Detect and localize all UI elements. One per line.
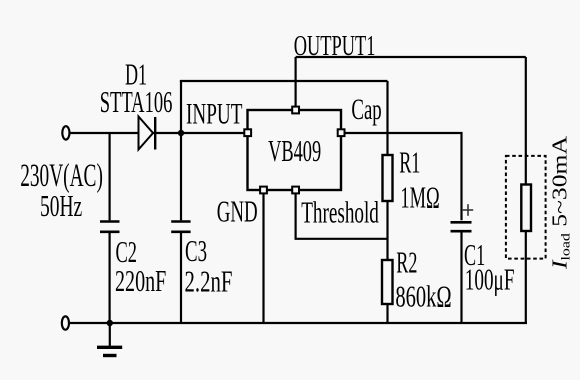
terminal top-left [62,126,69,139]
wire ground rail [69,322,527,324]
svg-text:R1: R1 [399,145,420,180]
load resistor [521,185,531,232]
svg-text:GND: GND [217,193,258,228]
svg-text:860kΩ: 860kΩ [395,279,451,314]
wire R1 to R2 [386,201,388,260]
wire OUTPUT riser [295,57,297,107]
svg-text:Threshold: Threshold [301,194,379,229]
wire down to R1 [386,81,388,156]
wire load drop [525,57,527,185]
resistor R1 [383,155,393,201]
wire load bottom [525,231,527,323]
wire input top [70,132,246,134]
pin Threshold [292,187,299,194]
diode D1 [139,117,156,150]
svg-text:INPUT: INPUT [186,98,242,131]
svg-text:1MΩ: 1MΩ [400,180,439,215]
pin Cap [338,129,345,136]
svg-text:Cap: Cap [351,93,381,126]
pin INPUT [244,129,251,136]
svg-text:VB409: VB409 [268,133,321,168]
wire Cap to C1 [345,133,462,220]
svg-text:OUTPUT1: OUTPUT1 [294,31,376,62]
op-amp U1 VB409 box [248,110,342,190]
svg-text:R2: R2 [396,245,417,280]
resistor R2 [382,260,393,304]
pin GND [260,187,267,194]
wire top rail 2 [180,80,388,82]
node ground junction [107,320,113,326]
wire riser to top rail [180,80,182,133]
svg-text:100μF: 100μF [465,261,515,296]
svg-text:50Hz: 50Hz [40,188,82,223]
capacitor C3 [171,133,190,323]
wire GND drop [262,193,264,323]
capacitor C2 [100,133,120,323]
svg-text:220nF: 220nF [115,263,166,298]
wire OUTPUT1 rail [296,56,526,58]
ground [97,323,122,356]
wire R2 to ground rail [386,304,388,323]
wire Threshold to divider [296,193,388,238]
load dashed box [506,156,546,259]
capacitor C1 [451,222,472,323]
terminal bottom-left [62,316,69,329]
plus sign C1 [463,204,473,216]
node A junction input [178,130,184,136]
pin OUTPUT top [292,107,299,114]
svg-text:2.2nF: 2.2nF [185,264,233,299]
svg-text:STTA106: STTA106 [100,84,173,119]
